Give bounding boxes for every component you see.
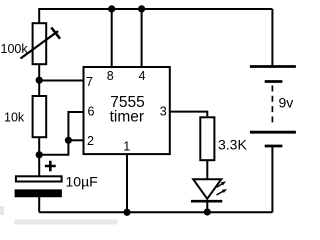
wire rail to battery top xyxy=(271,9,273,67)
artifact smudge bottom xyxy=(14,220,118,225)
node C junction dot on riser xyxy=(65,137,72,144)
resistor R3 3.3K body xyxy=(200,117,214,160)
junction dot pin 1 ground xyxy=(123,209,130,216)
LED light arrow lower xyxy=(217,191,224,195)
svg-text:2: 2 xyxy=(87,134,94,148)
svg-text:timer: timer xyxy=(110,108,144,125)
capacitor C1 top plate xyxy=(16,176,62,181)
svg-text:3: 3 xyxy=(160,104,167,118)
artifact smudge left edge xyxy=(0,206,4,215)
junction dot pin 4 rail xyxy=(138,5,145,12)
potentiometer R1 100k body xyxy=(33,23,47,64)
junction dot pin 8 rail xyxy=(108,5,115,12)
svg-text:6: 6 xyxy=(88,104,95,118)
battery B1 negative plate top cell xyxy=(265,80,283,83)
wire top supply rail xyxy=(39,8,272,10)
LED D1 triangle xyxy=(193,179,221,199)
wire pin 1 to ground rail xyxy=(126,154,128,212)
wire node B to pins 6/2 riser xyxy=(39,112,83,155)
svg-text:10k: 10k xyxy=(4,111,25,125)
battery B1 positive plate bottom cell xyxy=(250,131,296,134)
svg-text:9v: 9v xyxy=(279,95,294,111)
svg-text:10µF: 10µF xyxy=(66,174,98,190)
svg-text:1: 1 xyxy=(123,140,130,154)
capacitor C1 bottom plate xyxy=(15,190,62,197)
label plus sign xyxy=(45,161,56,172)
wire node C to pin 2 xyxy=(68,139,83,141)
LED D1 cathode bar xyxy=(191,200,222,203)
junction dot LED ground xyxy=(204,208,211,215)
svg-text:4: 4 xyxy=(139,69,146,83)
battery B1 dashed link xyxy=(271,86,273,127)
resistor R2 10k body xyxy=(33,96,47,137)
wire capacitor to ground rail xyxy=(38,197,40,213)
potentiometer R1 wiper arrow xyxy=(21,31,59,58)
wire bottom ground rail xyxy=(39,211,272,213)
LED light arrow upper xyxy=(217,183,223,187)
svg-text:100k: 100k xyxy=(1,42,29,56)
wire pot top lead xyxy=(38,8,40,23)
node A junction dot xyxy=(36,77,43,84)
svg-text:7: 7 xyxy=(86,75,93,89)
wire node A to 10k top xyxy=(38,80,40,95)
battery B1 positive plate top xyxy=(250,65,296,68)
wire pin 3 to resistor xyxy=(170,112,208,117)
svg-text:8: 8 xyxy=(107,69,114,83)
op-amp U1 7555 timer box xyxy=(84,67,170,154)
wire node B to capacitor xyxy=(38,155,40,176)
node B junction dot xyxy=(36,151,43,158)
battery B1 negative plate bottom xyxy=(265,145,283,148)
svg-text:3.3K: 3.3K xyxy=(218,137,247,153)
wire pin 4 to rail xyxy=(141,9,143,67)
wire resistor to LED xyxy=(206,160,208,179)
wire pin 8 to rail xyxy=(111,9,113,67)
wire battery to ground rail xyxy=(271,146,273,212)
wire 10k bottom to node B xyxy=(38,138,40,155)
wire pot bottom to node A xyxy=(38,64,40,80)
wire node A to pin 7 xyxy=(39,80,83,82)
wire LED to ground rail xyxy=(206,201,208,212)
potentiometer R1 wiper crossbar xyxy=(51,28,60,39)
